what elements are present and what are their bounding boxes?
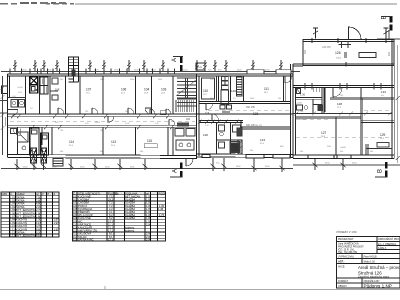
end wall between wings (double line) [197, 74, 200, 158]
svg-text:900: 900 [60, 151, 63, 153]
svg-text:VYPRACOVAL: VYPRACOVAL [338, 256, 355, 259]
svg-text:NÁZEV: NÁZEV [16, 192, 25, 196]
svg-text:B: B [382, 15, 388, 19]
WC cells fixtures lower-left [11, 128, 29, 150]
svg-text:Skála 1:50: Skála 1:50 [364, 261, 376, 264]
svg-text:BYT. JEDNOTKA: BYT. JEDNOTKA [16, 234, 36, 238]
corridor walls left wing [8, 114, 294, 127]
svg-text:2,00: 2,00 [146, 222, 152, 226]
corridor door slashes left wing [11, 114, 174, 129]
svg-text:OZN: OZN [198, 67, 203, 69]
svg-text:900: 900 [370, 151, 373, 153]
window marks top wall right block [305, 83, 381, 90]
svg-text:B: B [378, 169, 384, 173]
svg-text:Ing. J. OBERFAL: Ing. J. OBERFAL [378, 243, 397, 246]
row lines [73, 195, 166, 238]
svg-text:PROJEKTANT: PROJEKTANT [338, 238, 354, 241]
svg-text:1,09: 1,09 [18, 92, 22, 94]
upper room partition walls [26, 76, 174, 114]
sheet top border line [75, 3, 397, 5]
svg-text:132: 132 [381, 90, 386, 94]
svg-text:900: 900 [300, 151, 303, 153]
section marker A bottom [170, 163, 182, 178]
left lower fixtures (WC near left wall) [8, 98, 26, 116]
svg-text:1,75: 1,75 [159, 213, 165, 217]
terrace door posts [339, 41, 352, 58]
svg-text:+0,20: +0,20 [17, 87, 23, 89]
svg-text:2,0: 2,0 [30, 108, 33, 110]
tiny dimension texts bottom [23, 163, 357, 169]
right wall (double line) [392, 40, 394, 159]
svg-text:Pavel HOLB: Pavel HOLB [364, 256, 378, 259]
bottom wall right block [293, 155, 394, 159]
svg-text:108: 108 [55, 88, 60, 92]
svg-text:V: V [42, 192, 44, 196]
small label box above wall near stairwell [196, 63, 205, 70]
svg-text:1,09: 1,09 [210, 79, 214, 81]
connector / left wall of right block [295, 88, 297, 156]
top wall right block [293, 86, 394, 88]
tick bottom [345, 62, 347, 67]
svg-text:120: 120 [231, 89, 236, 93]
threshold dark box in corridor [177, 123, 189, 127]
column lines [77, 192, 158, 242]
svg-text:MĚŘ.:: MĚŘ.: [338, 261, 345, 264]
interior dimension line + wall top of room 127 [293, 112, 392, 116]
door arc corridor 128 to stair [285, 76, 342, 97]
corridor dashed centerline [10, 120, 195, 122]
area sub-labels [69, 92, 385, 147]
svg-text:A: A [173, 169, 179, 173]
left exterior wall [8, 74, 10, 157]
door arc room 104 [145, 108, 152, 115]
svg-text:760: 760 [340, 95, 343, 97]
svg-text:2,00: 2,00 [146, 238, 152, 242]
svg-text:+0,20: +0,20 [340, 147, 346, 149]
svg-text:DM. 2/B: DM. 2/B [246, 124, 255, 127]
svg-text:760: 760 [125, 111, 128, 113]
svg-text:8,10: 8,10 [36, 234, 42, 238]
svg-text:+0,20: +0,20 [296, 103, 302, 105]
middle wing lower partitions [217, 123, 241, 155]
flue shaft boxes [221, 76, 229, 105]
svg-text:900: 900 [250, 150, 253, 152]
svg-text:760: 760 [85, 111, 88, 113]
bottom dimension drops with arrows [15, 158, 346, 172]
chimney boxes crossing bottom wall [31, 148, 47, 163]
svg-text:107: 107 [86, 88, 92, 92]
svg-text:Půdorys 1.NP: Půdorys 1.NP [364, 283, 392, 289]
svg-text:1,2: 1,2 [233, 98, 236, 100]
svg-text:OZN: OZN [2, 192, 8, 196]
doors in middle corridor [206, 104, 219, 121]
window boxes below middle bottom wall [202, 155, 290, 159]
svg-text:119: 119 [205, 111, 210, 115]
svg-text:ODPOVĚDNÝ PROJ.: ODPOVĚDNÝ PROJ. [378, 238, 400, 241]
svg-text:AKCE:: AKCE: [338, 266, 346, 269]
svg-text:A: A [172, 58, 178, 62]
svg-text:1,97: 1,97 [54, 221, 60, 225]
section marker B top-right [377, 15, 400, 39]
exterior door steps below wall [186, 159, 193, 167]
svg-text:OBSAH:: OBSAH: [338, 285, 347, 288]
svg-text:620: 620 [388, 51, 391, 56]
svg-text:2400: 2400 [250, 98, 254, 100]
svg-text:115: 115 [147, 139, 152, 143]
svg-text:-0,02: -0,02 [95, 122, 101, 124]
dashed guide lines right block [296, 110, 392, 137]
svg-text:114: 114 [69, 140, 74, 144]
duct shaft [40, 77, 48, 94]
window H-marks on top wall (left wing) [10, 69, 175, 75]
svg-text:128 250: 128 250 [322, 46, 331, 49]
exterior steps below wall [53, 159, 63, 167]
svg-text:102: 102 [186, 118, 191, 121]
svg-text:900: 900 [60, 79, 63, 81]
svg-text:FÁZE A: FÁZE A [378, 247, 387, 250]
svg-text:760: 760 [300, 111, 303, 113]
svg-text:1,05: 1,05 [155, 123, 159, 125]
column lines [10, 192, 53, 237]
terrace door [348, 27, 350, 41]
svg-text:123: 123 [260, 138, 265, 142]
svg-text:1.30: 1.30 [300, 93, 306, 97]
room 111 inner partition [284, 76, 286, 102]
interior stairwell right end of left wing [176, 78, 196, 112]
corridor WC fixtures marks [220, 105, 232, 112]
svg-text:2400: 2400 [158, 79, 162, 81]
fixtures middle lower cluster [219, 125, 243, 153]
svg-text:Zaměření stávajícího stavu: Zaměření stávajícího stavu [358, 275, 390, 279]
row lines [1, 196, 59, 234]
svg-text:104: 104 [144, 88, 150, 92]
svg-text:126: 126 [335, 51, 341, 55]
svg-text:760: 760 [278, 98, 281, 100]
section marker B bottom [375, 162, 388, 178]
WC fixtures room 130 [297, 89, 308, 111]
svg-text:-0,02: -0,02 [125, 123, 129, 125]
interior walls right block [325, 88, 394, 156]
svg-text:1,48: 1,48 [158, 207, 164, 211]
svg-text:127: 127 [321, 131, 327, 135]
bottom exterior wall left wing [8, 155, 198, 159]
svg-text:TEL: 732 456 789: TEL: 732 456 789 [338, 251, 358, 254]
svg-text:+0,20: +0,20 [300, 119, 306, 121]
middle wing bottom wall [197, 154, 293, 158]
svg-text:760: 760 [60, 130, 63, 132]
svg-text:12,1: 12,1 [108, 238, 114, 242]
bold WC cell boxes [30, 128, 49, 155]
middle wing right wall (double line) [291, 64, 294, 158]
svg-text:2400: 2400 [130, 79, 134, 81]
middle wing corridor walls [199, 102, 291, 130]
table 1 text [2, 191, 60, 238]
sheet bottom border line [0, 289, 400, 291]
svg-text:115: 115 [73, 238, 78, 242]
svg-text:103: 103 [161, 88, 167, 92]
table 2 text [73, 190, 166, 241]
svg-text:128,0: 128,0 [336, 58, 342, 60]
window frames above middle wall [247, 70, 291, 74]
room 130/131 interior [296, 88, 325, 114]
svg-text:P: P [48, 192, 50, 196]
svg-text:129: 129 [380, 133, 386, 137]
exterior stair grid (top-left) [69, 57, 79, 82]
ticks on terrace top wall [311, 38, 313, 43]
window boxes bottom right block [308, 155, 351, 159]
right margin vertical dimension line [396, 45, 400, 163]
svg-text:1.13: 1.13 [10, 234, 16, 238]
svg-text:121: 121 [253, 112, 259, 116]
left margin vertical dimension line [0, 76, 8, 155]
svg-text:VÝKRESY V 1:50: VÝKRESY V 1:50 [336, 230, 357, 234]
terrace dim marks above [313, 28, 389, 39]
svg-text:koberec: koberec [125, 229, 135, 233]
scattered tiny dim texts [12, 79, 373, 153]
room 110 inner box [202, 78, 215, 99]
svg-text:111: 111 [264, 87, 269, 91]
svg-text:2400: 2400 [100, 79, 104, 81]
svg-text:1,05: 1,05 [205, 125, 209, 127]
terrace small box [359, 53, 376, 58]
svg-text:900: 900 [140, 151, 143, 153]
svg-text:113: 113 [111, 140, 116, 144]
sheet top edge text fragments [0, 2, 74, 5]
svg-text:FORMÁT: FORMÁT [338, 280, 349, 283]
door arcs into upper rooms (left wing) [58, 108, 175, 125]
svg-text:620: 620 [304, 49, 307, 54]
svg-text:900: 900 [340, 151, 343, 153]
svg-text:1,97: 1,97 [54, 227, 60, 231]
tiny dimension texts top [22, 70, 270, 72]
lower room partitions left wing [18, 127, 174, 156]
svg-text:128: 128 [337, 102, 342, 106]
terrace outline [303, 40, 394, 66]
svg-text:1,05: 1,05 [85, 123, 89, 125]
top dimension line [1, 71, 300, 73]
lower-right small room fixtures [175, 129, 195, 151]
left protrusion [2, 86, 8, 94]
svg-text:POZN: POZN [159, 191, 166, 195]
svg-text:DM. 2/B: DM. 2/B [246, 106, 255, 109]
middle wing partitions upper [219, 76, 244, 102]
room 102 small fixtures [50, 78, 58, 100]
section marker A top [172, 56, 183, 71]
narrow stair ladder [237, 77, 243, 96]
top exterior wall [8, 74, 294, 76]
svg-text:110: 110 [203, 89, 208, 93]
svg-text:118: 118 [203, 133, 208, 137]
svg-text:Areál Stružná – provoz: Areál Stružná – provoz [358, 265, 400, 270]
dim slashes on corridor bottom wall [199, 120, 240, 124]
svg-text:106: 106 [121, 88, 127, 92]
elevator shaft with X [30, 77, 38, 93]
